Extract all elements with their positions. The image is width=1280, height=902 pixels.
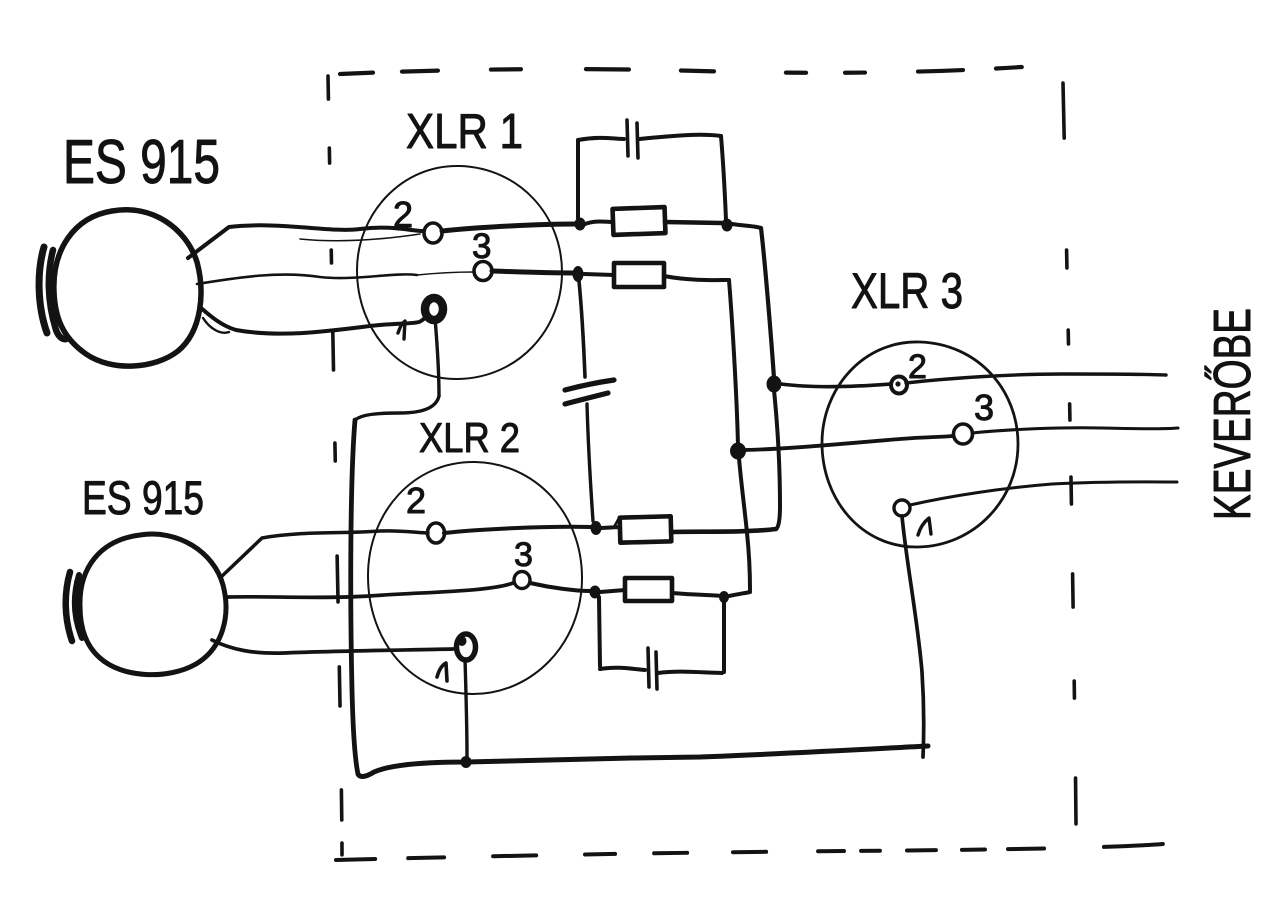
pin 2 XLR1 — [424, 223, 442, 243]
resistor R4 — [625, 578, 672, 601]
tick mark near R3 — [614, 518, 619, 527]
node D junction dot — [573, 266, 584, 282]
capacitor C2 bottom lead — [587, 404, 593, 521]
svg-text:2: 2 — [406, 480, 426, 521]
capacitor C2 plate bottom — [565, 393, 608, 404]
wire long vertical bus — [351, 420, 358, 774]
wire XLR2 pin3 to node G — [530, 583, 590, 591]
wire node C to XLR3 pin 2 — [781, 384, 891, 387]
svg-text:XLR 2: XLR 2 — [419, 414, 520, 461]
label pin 1 (XLR3) hand-drawn numeral — [918, 518, 931, 535]
resistor R1 — [613, 207, 666, 235]
node C junction dot — [767, 376, 782, 393]
wire XLR3 pin2 to mixer — [906, 374, 1166, 383]
microphone MIC1 capsule — [39, 247, 47, 333]
pin 1 XLR2 — [457, 634, 476, 660]
wire R4 to node H — [672, 593, 722, 596]
capacitor C1 loop right riser — [721, 136, 726, 220]
capacitor C3 right lead — [658, 672, 722, 673]
label pin 1 (XLR2) hand-drawn numeral — [437, 663, 447, 681]
pin 3 XLR1 — [474, 262, 492, 281]
wire node B to down riser — [732, 224, 761, 228]
wire XLR2 pin2 to node F — [444, 527, 591, 533]
pin 2 XLR2 — [428, 523, 445, 543]
capacitor C1 right lead — [639, 135, 721, 139]
node F junction dot — [591, 521, 602, 535]
capacitor C1 left lead — [578, 138, 624, 140]
pin 2 XLR3 inner dot — [895, 381, 900, 386]
wire node E down to R4 output corner — [739, 458, 750, 590]
wire MIC1 mid to XLR1 pin 3 — [197, 274, 417, 284]
dashed enclosure bottom edge — [336, 844, 1163, 860]
wire MIC1 mid faint continuation — [417, 272, 473, 275]
node B junction dot — [722, 219, 733, 232]
wire node E to XLR3 pin 3 — [745, 436, 952, 450]
wire node D to R2 — [584, 274, 614, 275]
wire XLR3 pin1 down to ground bus — [902, 516, 924, 757]
wire MIC1 hot double-stroke — [300, 234, 420, 241]
label pin 1 (XLR1) hand-drawn numeral — [398, 321, 405, 339]
microphone MIC2 capsule — [66, 572, 72, 641]
wire XLR3 pin3 to mixer — [972, 428, 1178, 433]
capacitor C1 plates — [627, 120, 628, 156]
capacitor C3 left lead — [600, 668, 645, 670]
wire MIC2 mid to XLR2 pin 3 — [228, 583, 513, 597]
connector XLR3 shell — [822, 342, 1018, 547]
wire XLR1 pin1 down lead — [435, 318, 439, 396]
pin 3 XLR3 — [954, 424, 973, 444]
svg-text:KEVERŐBE: KEVERŐBE — [1204, 308, 1262, 520]
svg-text:3: 3 — [974, 387, 994, 428]
pin 1 XLR3 — [894, 500, 910, 516]
node A junction dot — [575, 218, 586, 231]
microphone MIC2 body — [80, 534, 226, 675]
node I ground junction dot — [461, 756, 472, 768]
wire node G to R4 — [600, 590, 625, 592]
dashed enclosure left edge — [328, 76, 342, 855]
wire XLR2 pin1 down to ground bus — [465, 659, 467, 757]
connector XLR2 shell — [368, 462, 582, 694]
capacitor C3 loop right riser — [722, 602, 726, 672]
connector XLR1 shell — [357, 166, 562, 379]
wire corner down to node E — [729, 280, 738, 446]
node G junction dot — [590, 586, 601, 599]
dashed enclosure right edge — [1063, 83, 1076, 824]
wire ground bus bottom — [358, 746, 928, 776]
wire XLR1 pin2 to node A — [442, 224, 576, 231]
wire riser to XLR3 pin2 node — [761, 228, 774, 378]
svg-text:ES 915: ES 915 — [63, 128, 220, 197]
svg-text:ES 915: ES 915 — [82, 471, 204, 524]
wire MIC1 shield hook — [203, 318, 229, 333]
wire MIC1 shield to XLR1 pin 1 — [200, 307, 427, 334]
microphone MIC1 body — [54, 210, 201, 366]
wire MIC2 hot to XLR2 pin 2 — [220, 531, 428, 578]
capacitor C3 loop left riser — [599, 597, 600, 666]
node H junction dot — [719, 591, 729, 603]
resistor R3 — [620, 516, 672, 542]
capacitor C1 loop left riser — [576, 141, 580, 218]
svg-text:2: 2 — [393, 194, 413, 235]
capacitor C2 plate top — [565, 380, 614, 390]
wire node H to corner join — [729, 592, 750, 596]
capacitor C2 top lead — [579, 281, 585, 377]
wire node A to R1 — [585, 222, 613, 225]
pin 1 XLR2 ink blot — [458, 636, 467, 646]
wire XLR1 pin3 to node D — [492, 271, 573, 273]
pin 3 XLR2 — [514, 572, 530, 589]
dashed enclosure top edge — [340, 67, 1022, 74]
wire MIC1 hot to XLR1 pin 2 — [188, 225, 423, 258]
wire XLR3 pin1 to mixer — [910, 482, 1177, 505]
wire MIC2 shield to XLR2 pin 1 — [212, 640, 453, 653]
wire R3 to right corner — [671, 529, 776, 532]
pin 2 XLR3 — [891, 377, 907, 394]
wire node C down to corner — [774, 390, 780, 528]
wire pin1 elbow curve — [355, 396, 439, 420]
resistor R2 — [614, 263, 664, 287]
svg-text:XLR 3: XLR 3 — [851, 263, 963, 319]
capacitor C3 plates — [648, 648, 649, 687]
svg-text:3: 3 — [514, 536, 533, 574]
wire node F to R3 — [601, 527, 620, 528]
node E junction dot — [730, 443, 746, 460]
wire R2 to right corner — [664, 276, 729, 280]
wire R1 to node B — [665, 222, 722, 223]
pin 1 XLR1 — [425, 298, 443, 320]
svg-text:XLR 1: XLR 1 — [406, 105, 523, 159]
